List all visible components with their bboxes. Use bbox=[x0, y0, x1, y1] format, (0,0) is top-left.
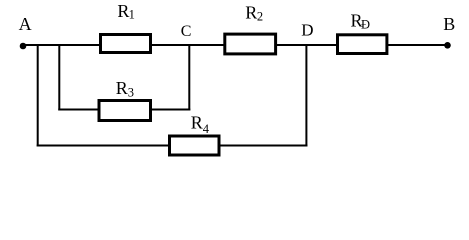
svg-text:C: C bbox=[181, 23, 192, 40]
wire R3 row right bbox=[152, 109, 190, 111]
resistor R1 bbox=[101, 35, 151, 53]
svg-text:R: R bbox=[191, 113, 203, 133]
resistor RD (lamp resistor) bbox=[338, 35, 387, 54]
svg-text:R: R bbox=[116, 78, 128, 98]
resistor R3 bbox=[99, 101, 151, 121]
wire R4 row left bbox=[37, 145, 170, 147]
node B terminal dot bbox=[444, 42, 451, 49]
wire: vertical branch down to R3 row bbox=[58, 44, 60, 111]
resistor R2 bbox=[225, 34, 276, 54]
node A terminal dot bbox=[20, 43, 27, 50]
wire: left vertical branch from A row down to R4 row bbox=[37, 44, 39, 147]
svg-text:A: A bbox=[19, 14, 32, 34]
wire A to R1 bbox=[23, 44, 100, 46]
wire R2 to RD bbox=[277, 44, 337, 46]
svg-text:B: B bbox=[443, 14, 455, 34]
resistor R4 bbox=[170, 136, 220, 155]
svg-text:2: 2 bbox=[257, 9, 263, 23]
wire: vertical branch from C down to R3 row bbox=[188, 44, 190, 111]
wire: vertical branch from D down to R4 row bbox=[305, 44, 307, 147]
wire RD to B bbox=[388, 44, 447, 46]
svg-text:Đ: Đ bbox=[361, 17, 370, 31]
svg-text:4: 4 bbox=[203, 122, 210, 136]
wire R3 row left bbox=[58, 109, 99, 111]
svg-text:R: R bbox=[245, 2, 257, 22]
wire R4 row right bbox=[221, 145, 308, 147]
svg-text:D: D bbox=[301, 20, 313, 39]
wire R1 to R2 bbox=[152, 44, 224, 46]
svg-text:1: 1 bbox=[129, 8, 135, 22]
svg-text:3: 3 bbox=[128, 86, 134, 100]
